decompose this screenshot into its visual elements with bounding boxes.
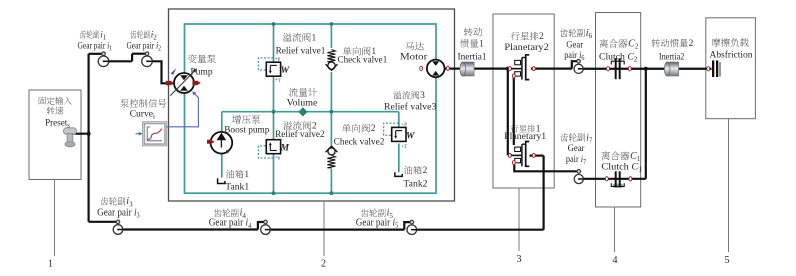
svg-text:4: 4 — [613, 255, 618, 266]
svg-text:3: 3 — [420, 91, 425, 101]
svg-text:Volume: Volume — [287, 98, 318, 108]
svg-text:pair i7: pair i7 — [566, 155, 587, 166]
svg-text:2: 2 — [423, 166, 428, 176]
svg-text:i5: i5 — [387, 208, 394, 220]
svg-text:Clutch C2: Clutch C2 — [599, 52, 638, 63]
svg-text:2: 2 — [539, 32, 544, 42]
svg-text:i3: i3 — [126, 196, 133, 208]
svg-text:Gear: Gear — [568, 144, 586, 154]
svg-text:Tank2: Tank2 — [403, 180, 427, 190]
svg-text:Presets: Presets — [45, 118, 70, 129]
svg-text:W: W — [281, 66, 290, 76]
svg-text:3: 3 — [517, 254, 522, 265]
svg-text:i7: i7 — [586, 132, 593, 144]
svg-text:C1: C1 — [630, 151, 641, 163]
svg-text:Tank1: Tank1 — [225, 182, 249, 192]
svg-text:Gear pair i1: Gear pair i1 — [78, 41, 113, 52]
svg-text:Clutch C1: Clutch C1 — [601, 162, 642, 173]
svg-text:1: 1 — [479, 39, 484, 49]
svg-text:i2: i2 — [151, 29, 158, 41]
svg-text:+P: +P — [402, 123, 408, 128]
svg-text:W: W — [406, 131, 415, 141]
svg-text:1: 1 — [244, 170, 249, 180]
svg-text:Gear pair i2: Gear pair i2 — [126, 41, 161, 52]
svg-text:Pump: Pump — [190, 67, 213, 77]
svg-text:Motor: Motor — [400, 53, 428, 63]
svg-text:1: 1 — [312, 33, 317, 43]
svg-text:Relief valve2: Relief valve2 — [275, 129, 325, 140]
svg-text:1: 1 — [371, 47, 376, 57]
svg-text:2: 2 — [321, 259, 326, 270]
svg-text:C2: C2 — [628, 38, 639, 50]
svg-text:Boost pump: Boost pump — [224, 126, 269, 136]
svg-text:Planetary2: Planetary2 — [504, 43, 549, 53]
svg-text:i1: i1 — [100, 29, 107, 41]
svg-text:Check valve1: Check valve1 — [338, 55, 388, 65]
svg-text:5: 5 — [725, 255, 730, 266]
svg-text:2: 2 — [689, 39, 694, 49]
svg-text:*T: *T — [275, 79, 280, 84]
svg-text:1: 1 — [536, 124, 541, 134]
svg-text:pair i6: pair i6 — [564, 51, 585, 62]
svg-text:*b: *b — [275, 156, 280, 161]
svg-text:Gear: Gear — [566, 41, 584, 51]
svg-text:Inertia1: Inertia1 — [458, 53, 487, 63]
svg-text:Relief valve1: Relief valve1 — [276, 45, 326, 56]
svg-text:*P: *P — [275, 58, 280, 63]
svg-text:M: M — [280, 144, 290, 154]
svg-text:Check valve2: Check valve2 — [334, 137, 385, 147]
svg-text:+T: +T — [402, 145, 408, 150]
svg-text:Inertia2: Inertia2 — [659, 52, 685, 62]
svg-text:i6: i6 — [586, 28, 593, 40]
svg-text:2: 2 — [371, 124, 376, 134]
svg-text:Gear pair i3: Gear pair i3 — [97, 207, 140, 219]
svg-text:1: 1 — [48, 259, 53, 270]
svg-text:Relief valve3: Relief valve3 — [384, 101, 437, 112]
svg-text:i4: i4 — [240, 208, 247, 220]
svg-text:2: 2 — [312, 122, 317, 132]
svg-text:Curvei: Curvei — [130, 110, 155, 121]
svg-text:Absfriction: Absfriction — [710, 49, 753, 60]
